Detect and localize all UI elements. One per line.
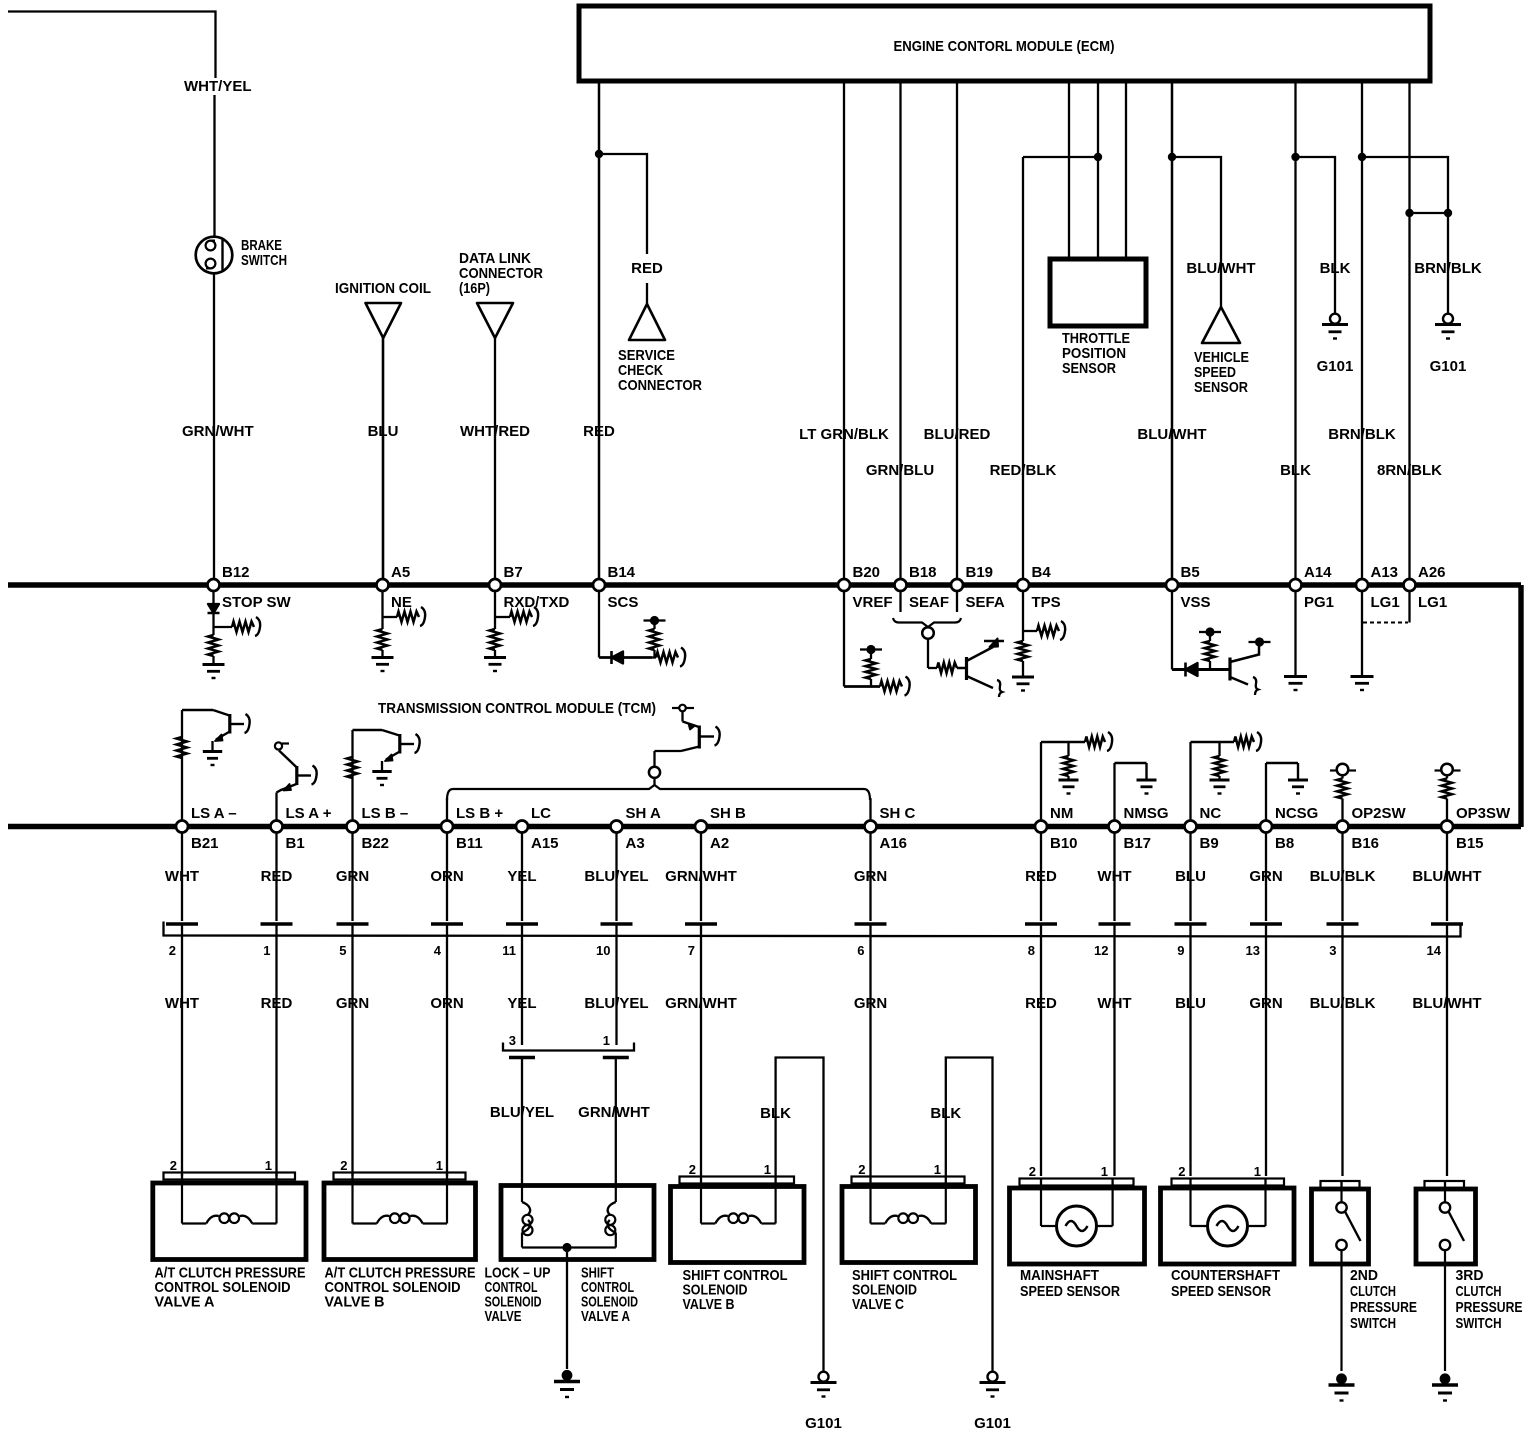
svg-text:RED: RED bbox=[261, 995, 293, 1012]
svg-text:SCS: SCS bbox=[608, 594, 639, 611]
svg-text:RED: RED bbox=[1025, 995, 1057, 1012]
svg-text:G101: G101 bbox=[1317, 358, 1354, 375]
svg-text:CLUTCH: CLUTCH bbox=[1350, 1283, 1396, 1300]
svg-text:B21: B21 bbox=[191, 835, 219, 852]
bus node A5 NE bbox=[377, 564, 412, 611]
svg-text:LC: LC bbox=[531, 805, 551, 822]
label BLU bbox=[368, 423, 399, 440]
label LT GRN/BLK bbox=[799, 426, 889, 443]
label RED (service check) bbox=[631, 260, 663, 277]
data link connector triangle bbox=[477, 303, 513, 338]
svg-text:BLU/WHT: BLU/WHT bbox=[1186, 260, 1255, 277]
svg-text:RED: RED bbox=[261, 868, 293, 885]
svg-text:LS A –: LS A – bbox=[191, 805, 237, 822]
bus node B7 RXD/TXD bbox=[489, 564, 570, 611]
svg-text:B1: B1 bbox=[286, 835, 305, 852]
svg-text:VSS: VSS bbox=[1181, 594, 1211, 611]
VREF internal: resistors, hook bbox=[844, 591, 910, 696]
connector pin 3 bbox=[1327, 924, 1359, 958]
svg-text:9: 9 bbox=[1177, 943, 1184, 958]
connector pin 2 bbox=[166, 924, 198, 958]
svg-text:OP2SW: OP2SW bbox=[1352, 805, 1407, 822]
svg-text:BLU/YEL: BLU/YEL bbox=[490, 1104, 554, 1121]
svg-text:RED/BLK: RED/BLK bbox=[990, 462, 1057, 479]
connector pin 12 bbox=[1094, 924, 1130, 958]
svg-text:B20: B20 bbox=[853, 564, 881, 581]
connector pin 11 bbox=[502, 924, 538, 958]
svg-text:CLUTCH: CLUTCH bbox=[1456, 1283, 1502, 1300]
svg-text:B19: B19 bbox=[966, 564, 994, 581]
label BLK (valve C) bbox=[930, 1105, 961, 1122]
label BRAKE SWITCH bbox=[241, 237, 287, 269]
wires from TCM bus to 14P connector bbox=[182, 833, 1447, 922]
svg-text:1: 1 bbox=[934, 1162, 941, 1177]
label G101 (right) bbox=[1430, 358, 1467, 375]
G101 ground symbol (valve C) bbox=[980, 1372, 1006, 1397]
junction dots linking A26 wire to ground branch bbox=[1405, 209, 1452, 217]
svg-text:A26: A26 bbox=[1418, 564, 1446, 581]
svg-text:LT GRN/BLK: LT GRN/BLK bbox=[799, 426, 889, 443]
svg-text:VALVE A: VALVE A bbox=[581, 1308, 630, 1325]
A/T clutch pressure control solenoid valve B box bbox=[324, 1158, 476, 1260]
svg-text:GRN: GRN bbox=[854, 995, 887, 1012]
svg-text:BLK: BLK bbox=[930, 1105, 961, 1122]
svg-text:3: 3 bbox=[509, 1033, 516, 1048]
ECM title text bbox=[894, 38, 1115, 55]
bus node A16 SH C bbox=[865, 805, 916, 852]
svg-text:GRN/WHT: GRN/WHT bbox=[665, 995, 737, 1012]
svg-text:3: 3 bbox=[1329, 943, 1336, 958]
svg-text:SWITCH: SWITCH bbox=[241, 252, 287, 269]
svg-text:WHT: WHT bbox=[1097, 868, 1131, 885]
branch wire to G101 ground (BLK) bbox=[1296, 157, 1336, 313]
svg-text:(16P): (16P) bbox=[459, 280, 490, 297]
label GRN/WHT bbox=[182, 423, 254, 440]
bus node B17 NMSG bbox=[1109, 805, 1169, 852]
svg-text:TRANSMISSION CONTROL MODULE (T: TRANSMISSION CONTROL MODULE (TCM) bbox=[378, 700, 656, 717]
svg-text:SWITCH: SWITCH bbox=[1350, 1315, 1396, 1332]
junction dot on PG1 wire bbox=[1291, 153, 1299, 161]
svg-text:1: 1 bbox=[265, 1158, 272, 1173]
label WHT/RED bbox=[460, 423, 530, 440]
label SERVICE CHECK CONNECTOR bbox=[618, 347, 702, 394]
bus node B20 VREF bbox=[838, 564, 893, 611]
wire WHT/YEL from top-left to brake switch bbox=[8, 12, 216, 238]
svg-text:BLU: BLU bbox=[368, 423, 399, 440]
bus node B15 OP3SW bbox=[1441, 805, 1511, 852]
junction dot and tee on TPS middle wire bbox=[1023, 153, 1102, 161]
svg-text:BLU/WHT: BLU/WHT bbox=[1412, 868, 1481, 885]
svg-text:2: 2 bbox=[340, 1158, 347, 1173]
NC internal: resistors and ground bbox=[1191, 732, 1262, 821]
svg-text:B18: B18 bbox=[909, 564, 937, 581]
svg-text:YEL: YEL bbox=[507, 995, 536, 1012]
svg-text:LG1: LG1 bbox=[1418, 594, 1447, 611]
svg-text:BLU/YEL: BLU/YEL bbox=[584, 995, 648, 1012]
svg-text:LS B +: LS B + bbox=[456, 805, 503, 822]
svg-text:BLU/WHT: BLU/WHT bbox=[1412, 995, 1481, 1012]
svg-text:B22: B22 bbox=[362, 835, 390, 852]
svg-text:B9: B9 bbox=[1200, 835, 1219, 852]
TCM title text bbox=[378, 700, 656, 717]
connector pin 5 bbox=[337, 924, 369, 958]
bracket wire joining B11 and A16 bbox=[447, 785, 871, 821]
bus node B12 STOP SW bbox=[208, 564, 292, 611]
svg-text:BLK: BLK bbox=[1320, 260, 1351, 277]
svg-text:GRN/WHT: GRN/WHT bbox=[182, 423, 254, 440]
bus node B21 LS A – bbox=[176, 805, 237, 852]
wire colour labels row 2 bbox=[165, 995, 1482, 1012]
svg-text:2: 2 bbox=[689, 1162, 696, 1177]
svg-text:LS B –: LS B – bbox=[362, 805, 409, 822]
14P connector bar line bbox=[164, 922, 1461, 937]
svg-text:BLU/YEL: BLU/YEL bbox=[584, 868, 648, 885]
label SHIFT CONTROL SOLENOID VALVE B bbox=[683, 1267, 788, 1313]
svg-text:A5: A5 bbox=[391, 564, 410, 581]
label RED/BLK bbox=[990, 462, 1057, 479]
TPS wires from ECM to sensor box bbox=[1069, 81, 1126, 259]
A26 dashed link to A13 bbox=[1363, 591, 1410, 623]
svg-text:12: 12 bbox=[1094, 943, 1108, 958]
svg-text:TPS: TPS bbox=[1032, 594, 1061, 611]
svg-text:BLU: BLU bbox=[1175, 995, 1206, 1012]
bus node A14 PG1 bbox=[1290, 564, 1335, 611]
svg-text:5: 5 bbox=[339, 943, 346, 958]
svg-text:B5: B5 bbox=[1181, 564, 1200, 581]
svg-text:8: 8 bbox=[1028, 943, 1035, 958]
svg-text:2: 2 bbox=[858, 1162, 865, 1177]
svg-text:STOP SW: STOP SW bbox=[222, 594, 291, 611]
svg-text:ORN: ORN bbox=[430, 995, 463, 1012]
svg-text:VALVE C: VALVE C bbox=[852, 1296, 904, 1313]
label BLU/RED bbox=[924, 426, 991, 443]
svg-text:VREF: VREF bbox=[853, 594, 893, 611]
svg-text:WHT: WHT bbox=[165, 995, 199, 1012]
service check connector triangle bbox=[629, 304, 665, 340]
wire colour labels row 1 bbox=[165, 868, 1482, 885]
svg-text:SH A: SH A bbox=[626, 805, 661, 822]
wire RED from ECM to bus B14 bbox=[598, 81, 601, 580]
svg-text:SEFA: SEFA bbox=[966, 594, 1005, 611]
svg-text:NCSG: NCSG bbox=[1275, 805, 1318, 822]
svg-text:GRN: GRN bbox=[854, 868, 887, 885]
svg-text:G101: G101 bbox=[1430, 358, 1467, 375]
label RED (main wire) bbox=[583, 423, 615, 440]
svg-text:ENGINE CONTORL MODULE (ECM): ENGINE CONTORL MODULE (ECM) bbox=[894, 38, 1115, 55]
svg-text:1: 1 bbox=[436, 1158, 443, 1173]
svg-text:GRN/WHT: GRN/WHT bbox=[578, 1104, 650, 1121]
label IGNITION COIL bbox=[335, 280, 431, 297]
bus node B5 VSS bbox=[1166, 564, 1211, 611]
svg-text:1: 1 bbox=[263, 943, 270, 958]
svg-text:PG1: PG1 bbox=[1304, 594, 1334, 611]
label SHIFT CONTROL SOLENOID VALVE A bbox=[581, 1265, 638, 1326]
svg-text:2: 2 bbox=[1178, 1164, 1185, 1179]
svg-text:PRESSURE: PRESSURE bbox=[1456, 1299, 1523, 1316]
bus node A26 LG1 bbox=[1404, 564, 1448, 611]
svg-text:GRN: GRN bbox=[336, 995, 369, 1012]
bus node B16 OP2SW bbox=[1337, 805, 1407, 852]
svg-text:2: 2 bbox=[1029, 1164, 1036, 1179]
svg-text:BLK: BLK bbox=[1280, 462, 1311, 479]
svg-text:2: 2 bbox=[170, 1158, 177, 1173]
svg-text:ORN: ORN bbox=[430, 868, 463, 885]
svg-text:LS A +: LS A + bbox=[286, 805, 332, 822]
A/T clutch pressure control solenoid valve A box bbox=[153, 1158, 306, 1260]
svg-text:VALVE A: VALVE A bbox=[155, 1294, 215, 1311]
svg-text:3RD: 3RD bbox=[1456, 1267, 1484, 1284]
LS B- driver transistor with resistor and ground bbox=[347, 730, 420, 821]
svg-text:WHT/RED: WHT/RED bbox=[460, 423, 530, 440]
wire WHT/RED data link connector to bus B7 bbox=[494, 338, 496, 580]
ECM main bus line bbox=[8, 585, 1521, 827]
junction dot on SCS wire bbox=[595, 150, 603, 158]
svg-text:1: 1 bbox=[764, 1162, 771, 1177]
bus node B1 LS A + bbox=[271, 805, 332, 852]
wire BRN/BLK from ECM to bus A13 bbox=[1361, 81, 1363, 580]
STOP SW internal: diode, resistors, ground bbox=[203, 591, 261, 679]
bus node A15 LC bbox=[516, 805, 559, 852]
svg-text:A15: A15 bbox=[531, 835, 559, 852]
wire BLK from shift valve B to G101 bbox=[776, 1058, 824, 1372]
shift control solenoid valve C box bbox=[842, 1162, 976, 1263]
svg-text:8RN/BLK: 8RN/BLK bbox=[1377, 462, 1442, 479]
ground symbol (3rd clutch switch) bbox=[1432, 1373, 1458, 1400]
svg-text:4: 4 bbox=[434, 943, 442, 958]
svg-text:NM: NM bbox=[1050, 805, 1073, 822]
svg-text:WHT/YEL: WHT/YEL bbox=[184, 78, 252, 95]
OP2SW internal: circle and resistor bbox=[1330, 764, 1356, 821]
TPS internal: resistors, ground bbox=[1012, 591, 1065, 691]
bus node B9 NC bbox=[1185, 805, 1222, 852]
countershaft speed sensor box bbox=[1161, 1164, 1295, 1264]
svg-text:NE: NE bbox=[391, 594, 412, 611]
branch wire to service check connector bbox=[599, 154, 647, 254]
connector pin 10 bbox=[596, 924, 632, 958]
wire 8RN/BLK from ECM to bus A26 bbox=[1408, 81, 1410, 580]
NMSG internal: ground bbox=[1115, 763, 1157, 821]
svg-text:COUNTERSHAFT: COUNTERSHAFT bbox=[1171, 1267, 1280, 1284]
NM internal: resistors and ground bbox=[1041, 732, 1112, 821]
LS A+ driver transistor with open-collector circle bbox=[275, 742, 317, 821]
wire GRN/BLU from ECM to bus B18 bbox=[899, 81, 901, 580]
RXD/TXD internal: resistors, ground bbox=[484, 591, 538, 672]
LS A- driver transistor with resistor and ground bbox=[177, 710, 250, 821]
svg-text:BRN/BLK: BRN/BLK bbox=[1414, 260, 1482, 277]
G101 ground symbol (valve B) bbox=[811, 1372, 837, 1397]
svg-text:A16: A16 bbox=[880, 835, 908, 852]
junction dot on LG1 wire bbox=[1358, 153, 1366, 161]
NCSG internal: ground bbox=[1266, 763, 1308, 821]
ground symbol (2nd clutch switch) bbox=[1329, 1373, 1355, 1400]
svg-text:CONNECTOR: CONNECTOR bbox=[618, 377, 702, 394]
branch wire to vehicle speed sensor bbox=[1172, 157, 1221, 307]
SCS internal: diode, pull-up resistor, ground-hook bbox=[599, 591, 685, 667]
svg-text:B15: B15 bbox=[1456, 835, 1484, 852]
3rd clutch pressure switch box bbox=[1416, 1181, 1476, 1371]
label 2ND CLUTCH PRESSURE SWITCH bbox=[1350, 1267, 1417, 1332]
svg-text:VALVE B: VALVE B bbox=[683, 1296, 735, 1313]
label VEHICLE SPEED SENSOR bbox=[1194, 349, 1249, 396]
wire RED/BLK from TPS junction to bus B4 bbox=[1022, 157, 1024, 580]
G101 ground symbol (BLK) bbox=[1322, 314, 1348, 339]
bus node A2 SH B bbox=[695, 805, 746, 852]
svg-text:BLK: BLK bbox=[760, 1105, 791, 1122]
wire LT GRN/BLK from ECM to bus B20 bbox=[843, 81, 845, 580]
svg-text:GRN: GRN bbox=[1249, 868, 1282, 885]
svg-text:B17: B17 bbox=[1124, 835, 1152, 852]
connector pin 7 bbox=[685, 924, 717, 958]
svg-text:VALVE: VALVE bbox=[485, 1308, 522, 1325]
svg-text:B8: B8 bbox=[1275, 835, 1294, 852]
svg-text:B7: B7 bbox=[504, 564, 523, 581]
svg-text:6: 6 bbox=[857, 943, 864, 958]
wire BLU/RED from ECM to bus B19 bbox=[956, 81, 958, 580]
throttle position sensor box bbox=[1050, 259, 1146, 326]
svg-text:7: 7 bbox=[688, 943, 695, 958]
SEAF/SEFA internal: bracket, node circle, transistor bbox=[893, 591, 1004, 698]
svg-text:WHT: WHT bbox=[1097, 995, 1131, 1012]
svg-text:10: 10 bbox=[596, 943, 610, 958]
TCM main bus line bbox=[8, 824, 1521, 829]
svg-text:OP3SW: OP3SW bbox=[1456, 805, 1511, 822]
wire BLK from shift valve C to G101 bbox=[946, 1058, 993, 1372]
connector pin 6 bbox=[855, 924, 887, 958]
label GRN/WHT (lock-up) bbox=[578, 1104, 650, 1121]
svg-text:SWITCH: SWITCH bbox=[1456, 1315, 1502, 1332]
connector pin 13 bbox=[1246, 924, 1282, 958]
SH C driver transistor with open-collector circle bbox=[655, 705, 720, 767]
lock-up control / shift control solenoid valve A box bbox=[501, 1186, 654, 1370]
connector pin 1 bbox=[261, 924, 293, 958]
label BLK (valve B) bbox=[760, 1105, 791, 1122]
junction dot on VSS wire bbox=[1168, 153, 1176, 161]
svg-text:BLU: BLU bbox=[1175, 868, 1206, 885]
svg-text:SENSOR: SENSOR bbox=[1194, 379, 1248, 396]
svg-text:RED: RED bbox=[1025, 868, 1057, 885]
svg-text:BLU/RED: BLU/RED bbox=[924, 426, 991, 443]
svg-text:SH C: SH C bbox=[880, 805, 916, 822]
label G101 (left) bbox=[1317, 358, 1354, 375]
svg-text:G101: G101 bbox=[974, 1415, 1011, 1432]
svg-text:A13: A13 bbox=[1371, 564, 1399, 581]
svg-text:1: 1 bbox=[1254, 1164, 1261, 1179]
label G101 (valve C) bbox=[974, 1415, 1011, 1432]
label LOCK-UP CONTROL SOLENOID VALVE bbox=[485, 1265, 551, 1326]
svg-text:A3: A3 bbox=[626, 835, 645, 852]
label WHT/YEL bbox=[184, 78, 252, 95]
svg-text:SPEED SENSOR: SPEED SENSOR bbox=[1020, 1283, 1120, 1300]
svg-text:GRN: GRN bbox=[1249, 995, 1282, 1012]
svg-text:WHT: WHT bbox=[165, 868, 199, 885]
wire BLU ignition coil to bus A5 bbox=[382, 338, 385, 580]
label 3RD CLUTCH PRESSURE SWITCH bbox=[1456, 1267, 1523, 1332]
svg-text:1: 1 bbox=[1101, 1164, 1108, 1179]
label 8RN/BLK bbox=[1377, 462, 1442, 479]
label BLU/WHT (sensor) bbox=[1186, 260, 1255, 277]
label COUNTERSHAFT SPEED SENSOR bbox=[1171, 1267, 1280, 1300]
brake switch symbol bbox=[196, 237, 233, 274]
G101 ground symbol (BRN/BLK) bbox=[1435, 314, 1461, 339]
label BLU/YEL (lock-up) bbox=[490, 1104, 554, 1121]
svg-text:A14: A14 bbox=[1304, 564, 1332, 581]
A13 internal ground bbox=[1351, 591, 1374, 691]
label MAINSHAFT SPEED SENSOR bbox=[1020, 1267, 1120, 1300]
svg-text:SENSOR: SENSOR bbox=[1062, 360, 1116, 377]
bus node B11 LS B + bbox=[441, 805, 503, 852]
svg-text:BLU/BLK: BLU/BLK bbox=[1310, 868, 1376, 885]
bus node B10 NM bbox=[1035, 805, 1078, 852]
shift control solenoid valve B box bbox=[671, 1162, 805, 1263]
svg-text:NMSG: NMSG bbox=[1124, 805, 1169, 822]
svg-text:RED: RED bbox=[583, 423, 615, 440]
connector pin 4 bbox=[431, 924, 463, 958]
bus node A13 LG1 bbox=[1356, 564, 1400, 611]
wire GRN/WHT brake switch to bus B12 bbox=[213, 274, 215, 581]
bus node B18 SEAF bbox=[895, 564, 950, 611]
wire below RED label bbox=[646, 283, 648, 304]
label A/T CLUTCH PRESSURE CONTROL SOLENOID VALVE A bbox=[155, 1265, 306, 1311]
ignition coil connector triangle bbox=[366, 303, 402, 338]
label BRN/BLK (main wire) bbox=[1328, 426, 1396, 443]
label THROTTLE POSITION SENSOR bbox=[1062, 330, 1130, 377]
label A/T CLUTCH PRESSURE CONTROL SOLENOID VALVE B bbox=[325, 1265, 476, 1311]
A14 internal ground bbox=[1284, 591, 1307, 691]
wires lock-up connector to valve bbox=[522, 1058, 616, 1189]
label BLK (main wire) bbox=[1280, 462, 1311, 479]
svg-text:VALVE B: VALVE B bbox=[325, 1294, 385, 1311]
label BLK (ground branch) bbox=[1320, 260, 1351, 277]
svg-text:NC: NC bbox=[1200, 805, 1222, 822]
svg-text:B14: B14 bbox=[608, 564, 636, 581]
svg-text:MAINSHAFT: MAINSHAFT bbox=[1020, 1267, 1099, 1284]
svg-text:IGNITION COIL: IGNITION COIL bbox=[335, 280, 431, 297]
VSS internal: diode, resistor, transistor bbox=[1172, 591, 1271, 696]
lock-up 2P connector bbox=[503, 1033, 634, 1058]
label GRN/BLU bbox=[866, 462, 934, 479]
svg-text:YEL: YEL bbox=[507, 868, 536, 885]
svg-text:LG1: LG1 bbox=[1371, 594, 1400, 611]
2nd clutch pressure switch box bbox=[1312, 1181, 1369, 1371]
svg-text:14: 14 bbox=[1427, 943, 1442, 958]
bus node B19 SEFA bbox=[951, 564, 1005, 611]
connector pin 8 bbox=[1025, 924, 1057, 958]
bus node A3 SH A bbox=[611, 805, 661, 852]
svg-text:B11: B11 bbox=[456, 835, 483, 852]
bus node B4 TPS bbox=[1017, 564, 1061, 611]
svg-text:A2: A2 bbox=[710, 835, 729, 852]
wire BLU/WHT from ECM to bus B5 bbox=[1171, 81, 1174, 580]
svg-text:GRN/WHT: GRN/WHT bbox=[665, 868, 737, 885]
ECM module box bbox=[579, 6, 1430, 81]
svg-text:2: 2 bbox=[169, 943, 176, 958]
svg-text:B4: B4 bbox=[1032, 564, 1052, 581]
svg-text:B16: B16 bbox=[1352, 835, 1380, 852]
OP3SW internal: circle and resistor bbox=[1435, 764, 1461, 821]
label G101 (valve B) bbox=[805, 1415, 842, 1432]
label DATA LINK CONNECTOR (16P) bbox=[459, 250, 543, 297]
svg-text:RED: RED bbox=[631, 260, 663, 277]
branch wire to G101 ground (BRN/BLK) bbox=[1362, 157, 1448, 313]
label SHIFT CONTROL SOLENOID VALVE C bbox=[852, 1267, 957, 1313]
svg-text:11: 11 bbox=[502, 943, 516, 958]
svg-text:SEAF: SEAF bbox=[909, 594, 949, 611]
bus node B8 NCSG bbox=[1260, 805, 1318, 852]
wire BLK from ECM to bus A14 bbox=[1294, 81, 1296, 580]
vehicle speed sensor triangle bbox=[1202, 307, 1240, 343]
svg-text:G101: G101 bbox=[805, 1415, 842, 1432]
label BLU/WHT (main wire) bbox=[1137, 426, 1206, 443]
